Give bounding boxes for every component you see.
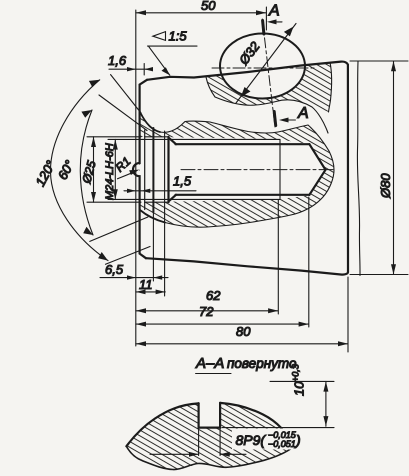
cutting plane trace bbox=[262, 19, 275, 127]
Ø32 dimension bbox=[236, 24, 296, 104]
svg-text:11: 11 bbox=[139, 277, 153, 292]
dim 6,5 bbox=[100, 212, 168, 281]
dim Ø25 bbox=[87, 137, 141, 202]
svg-text:A: A bbox=[297, 105, 309, 122]
countersink line bbox=[152, 128, 154, 212]
svg-text:M24-LH-6H: M24-LH-6H bbox=[104, 143, 116, 200]
hatch upper circle lobe bbox=[206, 62, 331, 112]
svg-text:8P9(: 8P9( bbox=[236, 432, 267, 448]
svg-text:1:5: 1:5 bbox=[169, 29, 188, 44]
hatch collar around bore bbox=[140, 112, 335, 227]
svg-text:10: 10 bbox=[292, 381, 307, 396]
svg-text:A–A: A–A bbox=[195, 355, 224, 372]
bore mouth vertical bbox=[169, 137, 177, 202]
break line right of circle bbox=[329, 62, 332, 112]
svg-text:62: 62 bbox=[206, 288, 221, 303]
dim 10+0,3 bbox=[222, 381, 334, 427]
section arrow bottom bbox=[283, 119, 295, 121]
svg-text:1,6: 1,6 bbox=[108, 53, 127, 68]
Ø32 hole circle bbox=[220, 34, 305, 99]
dim 80 bbox=[136, 277, 348, 352]
svg-text:−0,051: −0,051 bbox=[268, 439, 296, 449]
keyway slot bbox=[199, 403, 221, 428]
svg-text:6,5: 6,5 bbox=[105, 262, 124, 277]
face transition curves bbox=[140, 112, 160, 132]
section mark top bbox=[263, 21, 264, 35]
60 degree arc bbox=[80, 110, 93, 235]
svg-text:A: A bbox=[268, 3, 280, 20]
circle horizontal centerline bbox=[212, 67, 316, 69]
dim 8P9 bbox=[199, 428, 221, 456]
dim 72 bbox=[136, 197, 309, 327]
dim 1,5 bbox=[124, 190, 196, 192]
svg-text:+0,3: +0,3 bbox=[291, 364, 301, 382]
drill cone point bbox=[309, 144, 325, 195]
part outline (tapered body) bbox=[146, 62, 348, 275]
dim 62 bbox=[136, 200, 278, 314]
120 degree arc bbox=[50, 80, 108, 261]
section mark bottom bbox=[274, 112, 276, 126]
svg-text:повернуто: повернуто bbox=[227, 356, 297, 371]
blob bottom wavy bbox=[126, 446, 293, 469]
hole interior blank bbox=[220, 34, 305, 99]
svg-text:50: 50 bbox=[201, 0, 216, 13]
svg-text:80: 80 bbox=[236, 324, 251, 339]
dim Ø80 bbox=[350, 61, 408, 275]
thread major lines bbox=[169, 139, 281, 199]
dim M24-LH-6H bbox=[108, 139, 168, 199]
break line collar boundary bbox=[140, 112, 334, 227]
centerline axis bbox=[181, 169, 333, 171]
taper 1:5 symbol bbox=[153, 32, 166, 41]
section blob hatch bbox=[126, 403, 293, 469]
break line under circle bbox=[206, 77, 328, 133]
counterbore lines bbox=[145, 137, 169, 202]
svg-text:1,5: 1,5 bbox=[173, 174, 192, 189]
section blob outline bbox=[126, 403, 293, 447]
counterbore depth line bbox=[164, 131, 166, 209]
svg-text:72: 72 bbox=[199, 304, 214, 319]
dim 11 bbox=[136, 209, 166, 297]
thread minor thick lines bbox=[176, 144, 310, 195]
left face bbox=[133, 80, 147, 258]
svg-text:Ø80: Ø80 bbox=[378, 173, 393, 199]
R1 leader bbox=[118, 171, 137, 179]
section arrow top bbox=[271, 21, 282, 23]
angle construction lines bbox=[111, 75, 141, 113]
recess face line bbox=[144, 130, 146, 210]
dim 50 bbox=[135, 10, 137, 346]
